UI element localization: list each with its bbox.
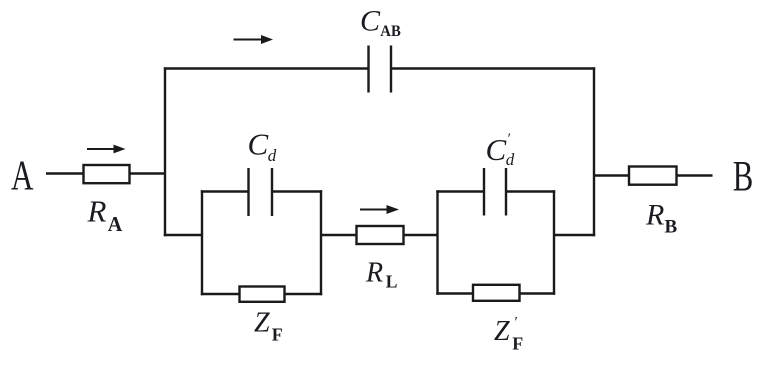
svg-text:R: R: [87, 194, 107, 229]
block1 top edge wire (broken by C_d): [201, 190, 249, 192]
block2 left edge wire: [436, 190, 438, 294]
wire R_A to left riser: [130, 172, 167, 174]
block1 left edge wire: [201, 190, 203, 295]
svg-text:C: C: [248, 127, 269, 162]
svg-text:d: d: [506, 150, 515, 169]
wire right riser vertical: [593, 67, 595, 236]
svg-text:Z: Z: [494, 316, 510, 347]
wire left riser vertical: [164, 67, 166, 236]
wire top left segment: [164, 67, 369, 69]
wire A to R_A: [46, 172, 84, 174]
svg-text:R: R: [365, 258, 383, 289]
svg-text:d: d: [268, 146, 277, 165]
arrow over R_L: [360, 205, 399, 214]
svg-text:B: B: [665, 217, 678, 238]
impedance Z_F box: [240, 287, 285, 302]
svg-text:′: ′: [507, 131, 511, 147]
wire R_B to B: [677, 174, 713, 176]
block2 right edge wire: [553, 190, 555, 294]
block2 bottom edge wire (broken by Z_F'): [436, 292, 473, 294]
arrow over R_A: [87, 145, 126, 154]
svg-text:AB: AB: [380, 23, 401, 40]
resistor R_L: [357, 226, 404, 244]
capacitor C_AB plates: [367, 46, 369, 93]
wire mid left to block1: [164, 234, 203, 236]
wire top right segment: [391, 67, 595, 69]
svg-text:L: L: [386, 272, 398, 292]
capacitor C_d plates: [247, 168, 249, 216]
svg-text:R: R: [645, 199, 664, 232]
svg-text:′: ′: [514, 314, 518, 330]
resistor R_A: [84, 165, 130, 183]
svg-text:C: C: [486, 132, 507, 167]
wire R_L to block2: [404, 234, 439, 236]
wire block2 to right riser: [554, 234, 595, 236]
svg-text:A: A: [11, 154, 34, 200]
svg-text:C: C: [360, 4, 381, 37]
arrow on top wire: [234, 35, 274, 44]
svg-text:F: F: [272, 325, 283, 345]
capacitor C_d' plates: [483, 168, 485, 216]
svg-text:A: A: [108, 212, 123, 236]
block1 bottom edge wire (broken by Z_F): [201, 293, 240, 295]
svg-text:B: B: [733, 154, 754, 201]
wire block1 to R_L: [321, 234, 357, 236]
svg-text:F: F: [512, 333, 523, 353]
impedance Z_F' box: [473, 285, 520, 301]
resistor R_B: [629, 167, 677, 185]
block1 right edge wire: [320, 190, 322, 295]
svg-text:Z: Z: [254, 308, 270, 339]
wire riser to R_B: [594, 174, 630, 176]
block2 top edge wire (broken by C_d'): [436, 190, 484, 192]
